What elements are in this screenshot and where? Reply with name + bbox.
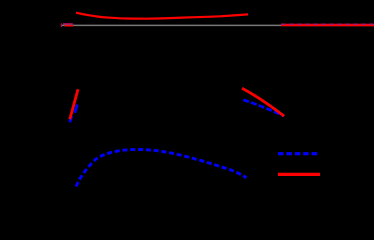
mid-right red curve xyxy=(242,88,284,116)
legend blue dashed sample xyxy=(278,152,318,155)
right overlap: red solid on asymptote xyxy=(281,24,374,26)
left overlap: red segment on line xyxy=(65,25,74,27)
right overlap: blue-under-red dashes (purple) xyxy=(281,23,374,25)
left overlap: purple segment on line (blue under red) xyxy=(63,23,73,25)
left tick marker (magenta) xyxy=(60,23,62,27)
steep left red segment xyxy=(70,89,78,119)
long blue dashed curve (lower state) xyxy=(76,150,247,187)
mid-right blue dashed curve xyxy=(243,100,283,116)
legend red solid sample xyxy=(278,173,320,176)
upper red potential curve xyxy=(76,13,248,19)
steep left blue dash (lower) xyxy=(70,116,72,123)
steep left blue dash (upper) xyxy=(75,105,78,113)
gray asymptote line xyxy=(62,24,374,26)
